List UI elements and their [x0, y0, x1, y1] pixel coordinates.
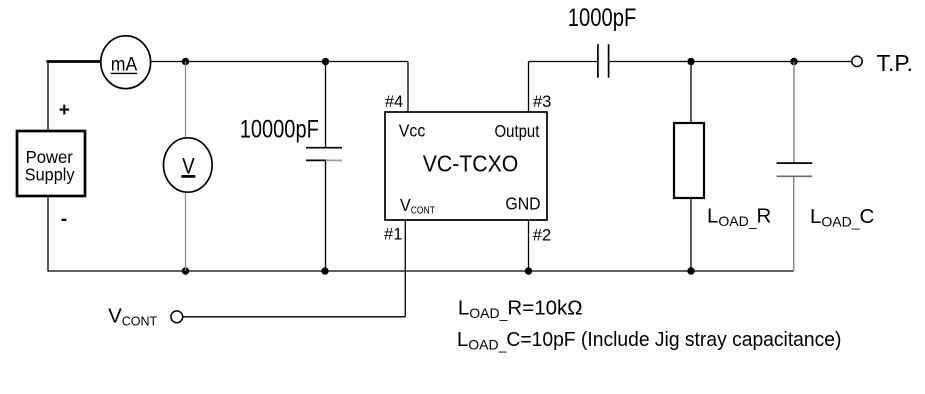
wire thick stub from power supply to ammeter: [47, 60, 102, 63]
wire pin 3 vertical to output rail: [528, 62, 530, 113]
svg-text:V: V: [182, 153, 195, 178]
capacitor C1 bottom plate: [306, 159, 326, 161]
svg-text:GND: GND: [505, 194, 540, 214]
power supply box: [17, 131, 85, 196]
capacitor C1 top plate: [306, 147, 342, 149]
ammeter U-mA circle: [101, 36, 151, 89]
svg-text:#4: #4: [385, 93, 403, 111]
resistor Load-R bottom lead: [690, 198, 692, 271]
capacitor Load-C top lead (gray): [793, 62, 795, 164]
node junction at 10000pF branch top: [322, 58, 329, 65]
svg-text:VC-TCXO: VC-TCXO: [423, 150, 519, 176]
wire pin 1 vertical to Vcont: [404, 220, 406, 317]
node junction load capacitor top: [790, 58, 797, 65]
capacitor C3 1000pF right plate: [608, 44, 610, 77]
test point terminal circle: [852, 56, 862, 66]
svg-text:#1: #1: [384, 226, 402, 244]
svg-text:Supply: Supply: [25, 165, 75, 185]
voltmeter V circle: [164, 138, 213, 192]
capacitor Load-C bottom lead (gray): [793, 176, 795, 271]
resistor Load-R top lead: [690, 62, 692, 124]
svg-text:T.P.: T.P.: [877, 50, 914, 76]
resistor Load-R body: [674, 123, 704, 198]
node junction bottom voltmeter: [182, 267, 189, 274]
svg-text:-: -: [61, 209, 67, 230]
svg-text:10000pF: 10000pF: [240, 115, 319, 143]
node junction load resistor top: [687, 58, 694, 65]
node junction bottom load resistor: [687, 267, 694, 274]
Vcont input terminal circle: [171, 311, 183, 323]
capacitor Load-C bottom plate (gray): [777, 175, 813, 177]
capacitor C1 10000pF top lead: [325, 62, 327, 148]
svg-text:+: +: [59, 100, 70, 121]
wire top rail from ammeter to pin 4: [150, 61, 408, 63]
wire pin 4 vertical drop: [407, 62, 409, 113]
svg-text:1000pF: 1000pF: [568, 4, 637, 32]
wire vertical power supply plus lead: [47, 62, 49, 132]
node junction bottom 10000pF: [321, 267, 328, 274]
capacitor Load-C top plate: [777, 162, 813, 164]
svg-text:#2: #2: [533, 226, 551, 244]
svg-text:LOAD_C=10pF (Include Jig stray: LOAD_C=10pF (Include Jig stray capacitan…: [457, 328, 842, 353]
wire voltmeter branch lower (gray): [185, 192, 187, 271]
wire pin 2 to ground rail: [528, 220, 530, 271]
capacitor C1 bottom lead: [325, 160, 327, 271]
svg-text:#3: #3: [533, 93, 551, 111]
node junction at voltmeter branch top: [182, 58, 189, 65]
node junction bottom pin 2: [525, 267, 532, 274]
wire voltmeter branch upper (gray): [185, 62, 187, 139]
oscillator U1 VC-TCXO box: [385, 112, 547, 220]
capacitor C3 1000pF left plate: [597, 44, 599, 77]
wire power supply minus lead: [47, 196, 49, 271]
wire output rail to C3 left plate: [529, 61, 598, 63]
wire output rail from C3 to test point: [609, 61, 852, 63]
svg-text:mA: mA: [111, 54, 138, 75]
svg-text:Vcc: Vcc: [399, 121, 426, 141]
svg-text:Output: Output: [495, 121, 540, 141]
wire Vcont horizontal: [183, 316, 406, 318]
wire bottom ground rail: [47, 270, 793, 272]
